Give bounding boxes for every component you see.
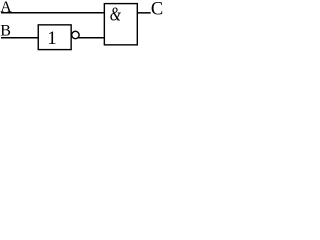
inverter U1 inversion bubble <box>72 31 79 38</box>
wire B to inverter input <box>1 37 39 39</box>
svg-text:&: & <box>110 3 122 25</box>
wire A to AND gate input <box>1 12 105 14</box>
AND gate U2 body <box>104 4 137 45</box>
inverter U1 body <box>38 25 71 50</box>
svg-text:C: C <box>151 0 163 20</box>
svg-text:B: B <box>0 23 11 40</box>
wire AND gate output <box>138 12 151 14</box>
wire inverter output to AND gate input <box>78 37 105 39</box>
svg-text:1: 1 <box>47 28 57 49</box>
